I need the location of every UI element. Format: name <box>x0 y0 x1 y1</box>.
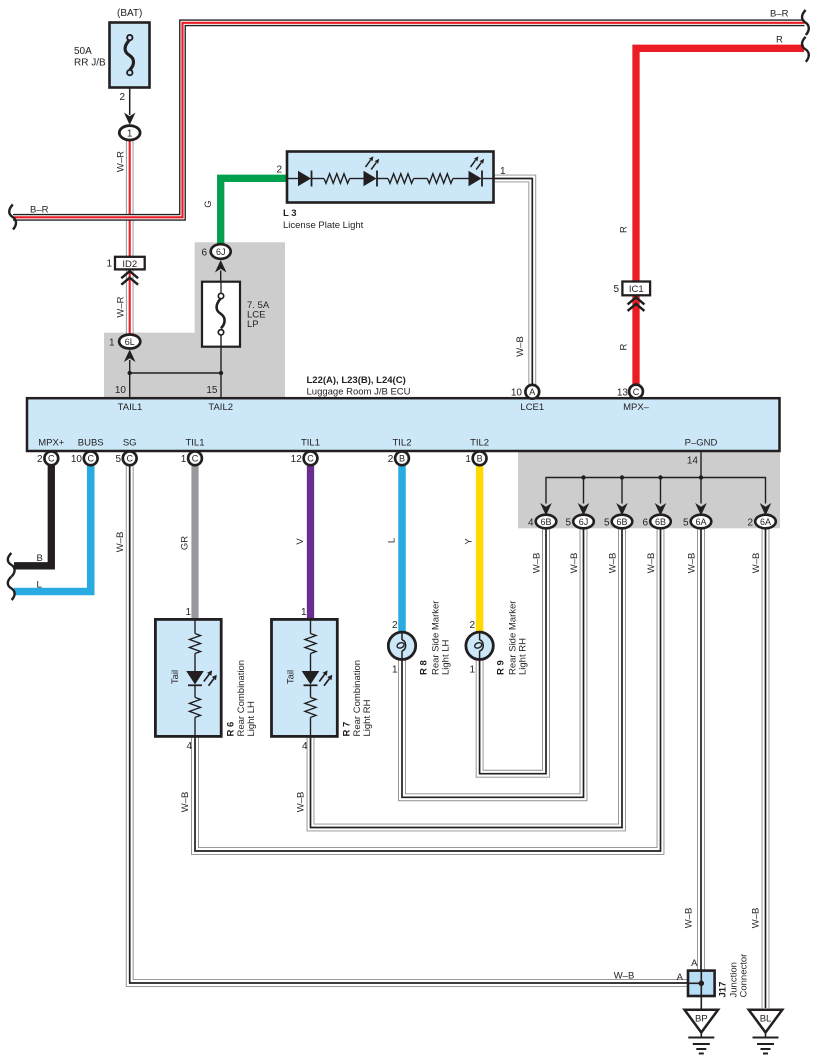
svg-text:5: 5 <box>604 518 610 529</box>
svg-text:License Plate Light: License Plate Light <box>283 220 364 231</box>
wire V TIL1 to R7 <box>295 464 311 620</box>
svg-text:5: 5 <box>115 454 121 465</box>
svg-text:C: C <box>633 387 640 397</box>
svg-text:Light RH: Light RH <box>362 699 373 736</box>
connector A LCE1 <box>511 385 539 399</box>
connector 6A pin 5 <box>683 515 711 529</box>
svg-text:B–R: B–R <box>30 205 49 216</box>
ground BL <box>749 1010 783 1054</box>
break symbol B left <box>8 553 15 577</box>
svg-text:5: 5 <box>565 518 571 529</box>
svg-text:1: 1 <box>185 607 191 618</box>
svg-text:4: 4 <box>528 518 534 529</box>
wire GR TIL1 to R6 <box>179 464 195 620</box>
svg-text:2: 2 <box>119 92 125 103</box>
svg-text:10: 10 <box>115 385 127 396</box>
svg-text:10: 10 <box>71 454 83 465</box>
svg-text:6J: 6J <box>216 247 226 257</box>
svg-text:L22(A), L23(B), L24(C): L22(A), L23(B), L24(C) <box>307 375 406 386</box>
wire Y TIL2 to R9 <box>464 464 480 633</box>
wire L TIL2 to R8 <box>386 464 402 633</box>
svg-text:R 7: R 7 <box>342 722 353 737</box>
svg-text:RR J/B: RR J/B <box>74 58 106 69</box>
svg-text:A: A <box>691 958 698 969</box>
svg-text:5: 5 <box>613 284 619 295</box>
svg-text:4: 4 <box>302 741 308 752</box>
svg-text:R: R <box>776 35 783 46</box>
svg-text:W–B: W–B <box>646 553 657 574</box>
svg-text:1: 1 <box>392 665 398 676</box>
svg-text:V: V <box>295 538 306 545</box>
svg-text:TIL2: TIL2 <box>392 438 411 449</box>
connector 1 (BAT feed) <box>119 113 140 141</box>
wire W-B 6A to BL ground <box>751 528 766 1008</box>
connector 6B pin 4 <box>528 515 556 529</box>
wire B MPX+ <box>14 464 51 566</box>
fuse 50A RR J/B <box>74 8 150 115</box>
svg-text:14: 14 <box>687 456 699 467</box>
bulb R8 Rear Side Marker LH <box>388 601 451 676</box>
lamp L3 License Plate Light <box>276 152 506 232</box>
svg-text:1: 1 <box>127 129 133 140</box>
svg-text:TIL2: TIL2 <box>470 438 489 449</box>
svg-text:13: 13 <box>617 388 629 399</box>
wire W-B SG to J17 <box>115 464 688 983</box>
svg-text:6: 6 <box>642 518 648 529</box>
svg-text:W–B: W–B <box>295 792 306 813</box>
svg-text:1: 1 <box>470 665 476 676</box>
svg-text:BP: BP <box>695 1014 708 1025</box>
ECU name label <box>307 375 411 398</box>
svg-text:A: A <box>677 972 684 983</box>
svg-text:BUBS: BUBS <box>78 438 104 449</box>
svg-text:C: C <box>307 454 314 464</box>
svg-text:1: 1 <box>301 607 307 618</box>
wire W-R from connector 1 to 6L <box>116 139 130 335</box>
connector C MPX- <box>617 385 643 399</box>
svg-text:W–B: W–B <box>180 792 191 813</box>
connector 6J pin 5 <box>565 515 593 529</box>
break symbol B-R left <box>9 205 16 230</box>
svg-text:2: 2 <box>388 454 394 465</box>
wire L BUBS <box>14 464 91 592</box>
svg-text:W–B: W–B <box>115 532 126 553</box>
svg-text:W–B: W–B <box>751 553 762 574</box>
svg-text:R 8: R 8 <box>419 660 430 675</box>
svg-text:W–B: W–B <box>751 908 762 929</box>
svg-text:L: L <box>37 580 42 591</box>
svg-text:B: B <box>477 454 483 464</box>
svg-text:6B: 6B <box>655 517 666 527</box>
junction connector J17 <box>688 954 750 998</box>
ground BP <box>685 996 719 1054</box>
connector B TIL2 pin 2 <box>388 451 409 465</box>
svg-text:Light LH: Light LH <box>246 701 257 737</box>
svg-text:Luggage Room J/B ECU: Luggage Room J/B ECU <box>307 387 411 398</box>
svg-text:B: B <box>37 553 43 564</box>
svg-text:Light LH: Light LH <box>441 639 452 675</box>
wire R <box>619 35 805 386</box>
connector 6A pin 2 <box>747 515 775 529</box>
svg-text:J17: J17 <box>718 982 729 998</box>
svg-text:15: 15 <box>206 385 218 396</box>
node P-GND pin 14 and ground bus <box>546 452 766 504</box>
connector 6B pin 5 <box>604 515 632 529</box>
wire W-B from L3 to LCE1 <box>494 179 532 386</box>
svg-text:TIL1: TIL1 <box>301 438 320 449</box>
svg-text:5: 5 <box>683 518 689 529</box>
svg-text:1: 1 <box>465 454 471 465</box>
fuse 7.5A LCE LP <box>202 282 270 373</box>
svg-text:2: 2 <box>470 620 476 631</box>
svg-text:L 3: L 3 <box>283 208 297 219</box>
svg-text:SG: SG <box>123 438 137 449</box>
svg-text:R 9: R 9 <box>495 660 506 675</box>
svg-text:C: C <box>48 454 55 464</box>
svg-text:MPX–: MPX– <box>623 402 650 413</box>
connector C MPX+ pin 2 <box>37 451 58 465</box>
svg-text:Y: Y <box>464 538 475 545</box>
junction ID2 <box>106 257 144 285</box>
svg-text:TIL1: TIL1 <box>185 438 204 449</box>
wire W-B 6B to R7 <box>295 528 622 827</box>
connector B TIL2 pin 1 <box>465 451 486 465</box>
svg-text:R 6: R 6 <box>226 722 237 737</box>
lamp R6 Rear Combination LH <box>155 619 257 736</box>
svg-text:(BAT): (BAT) <box>117 8 142 19</box>
svg-text:R: R <box>619 343 630 350</box>
connector 6J <box>201 244 230 282</box>
svg-text:6L: 6L <box>125 337 135 347</box>
svg-text:P–GND: P–GND <box>685 438 718 449</box>
svg-text:R: R <box>619 226 630 233</box>
svg-text:G: G <box>203 200 214 207</box>
svg-text:12: 12 <box>291 454 303 465</box>
svg-text:6A: 6A <box>695 517 706 527</box>
svg-text:W–B: W–B <box>531 553 542 574</box>
svg-text:2: 2 <box>392 620 398 631</box>
wire W-B 6B to R6 <box>180 528 661 851</box>
connector C TIL1 pin 12 <box>291 451 318 465</box>
ECU box <box>27 398 780 451</box>
svg-text:50A: 50A <box>74 46 92 57</box>
connector 6L <box>109 335 140 374</box>
svg-text:ID2: ID2 <box>122 259 137 270</box>
gray area fuse LCE <box>104 242 285 399</box>
svg-text:B–R: B–R <box>770 9 789 20</box>
svg-text:W–B: W–B <box>607 553 618 574</box>
wire B-R top <box>13 9 805 218</box>
svg-text:Tail: Tail <box>170 670 181 684</box>
node TAIL bus <box>115 371 223 399</box>
svg-text:2: 2 <box>37 454 43 465</box>
svg-text:1: 1 <box>500 166 506 177</box>
svg-text:Connector: Connector <box>739 954 750 998</box>
svg-text:W–R: W–R <box>116 151 127 172</box>
svg-text:1: 1 <box>109 338 115 349</box>
break symbol R right <box>802 37 809 62</box>
svg-text:6B: 6B <box>616 517 627 527</box>
svg-text:W–B: W–B <box>614 971 635 982</box>
svg-text:2: 2 <box>747 518 753 529</box>
connector C SG pin 5 <box>115 451 136 465</box>
svg-text:W–B: W–B <box>686 553 697 574</box>
svg-text:IC1: IC1 <box>629 284 644 295</box>
wire W-B 6J to R8 <box>402 528 584 797</box>
svg-text:LCE1: LCE1 <box>520 402 544 413</box>
svg-text:6: 6 <box>201 248 207 259</box>
arrows into ground connectors <box>540 503 771 516</box>
bulb R9 Rear Side Marker RH <box>466 601 528 676</box>
connector C BUBS pin 10 <box>71 451 98 465</box>
svg-text:W–B: W–B <box>515 336 526 357</box>
svg-text:GR: GR <box>179 536 190 550</box>
junction IC1 <box>613 282 650 311</box>
break symbol L left <box>8 577 15 601</box>
svg-text:6J: 6J <box>579 517 589 527</box>
gray area P-GND <box>518 452 780 528</box>
svg-text:BL: BL <box>760 1014 772 1025</box>
svg-text:W–R: W–R <box>116 296 127 317</box>
break symbol B-R right <box>802 10 809 35</box>
svg-text:B: B <box>399 454 405 464</box>
svg-text:6A: 6A <box>760 517 771 527</box>
svg-text:1: 1 <box>181 454 187 465</box>
svg-text:Light RH: Light RH <box>517 638 528 675</box>
wire W-B 6A to J17 <box>684 528 702 971</box>
svg-text:TAIL2: TAIL2 <box>208 402 233 413</box>
svg-text:MPX+: MPX+ <box>38 438 65 449</box>
svg-text:1: 1 <box>106 259 112 270</box>
svg-text:10: 10 <box>511 388 523 399</box>
wire G license plate <box>203 178 287 245</box>
svg-text:A: A <box>529 387 535 397</box>
svg-text:W–B: W–B <box>569 553 580 574</box>
svg-text:C: C <box>87 454 94 464</box>
svg-text:6B: 6B <box>540 517 551 527</box>
wire W-B 6B to R9 <box>480 528 546 773</box>
svg-text:C: C <box>126 454 133 464</box>
svg-text:4: 4 <box>186 741 192 752</box>
svg-text:Tail: Tail <box>286 670 297 684</box>
svg-text:L: L <box>386 538 397 543</box>
connector C TIL1 pin 1 <box>181 451 202 465</box>
svg-text:2: 2 <box>276 165 282 176</box>
svg-text:W–B: W–B <box>684 908 695 929</box>
connector 6B pin 6 <box>642 515 670 529</box>
lamp R7 Rear Combination RH <box>272 619 374 736</box>
svg-text:TAIL1: TAIL1 <box>118 402 143 413</box>
svg-text:C: C <box>192 454 199 464</box>
svg-text:LP: LP <box>247 319 259 330</box>
